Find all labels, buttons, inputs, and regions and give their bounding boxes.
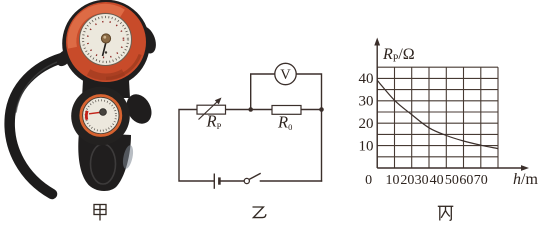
- svg-text:RP/Ω: RP/Ω: [382, 46, 415, 65]
- top gauge black casing: [62, 0, 150, 87]
- lower gauge black bezel: [71, 87, 130, 146]
- svg-text:40: 40: [359, 71, 374, 87]
- node B: [319, 107, 324, 112]
- curve RP vs h: [377, 81, 498, 149]
- svg-text:h/m: h/m: [513, 171, 538, 188]
- rheostat RP: [197, 105, 226, 114]
- grid: [377, 67, 498, 168]
- circuit (yi): [179, 74, 322, 181]
- resistor R0: [272, 106, 301, 115]
- neck between gauges: [82, 62, 130, 98]
- rheostat RP arrow: [199, 98, 222, 120]
- x axis labels: [365, 173, 488, 188]
- voltmeter branch wires: [251, 74, 275, 110]
- axes: [377, 44, 523, 168]
- y axis arrowhead: [374, 38, 380, 46]
- wire RP to node A: [226, 109, 273, 111]
- svg-text:10: 10: [359, 138, 374, 154]
- label yi (drawn strokes): [253, 207, 266, 218]
- svg-text:70: 70: [474, 173, 488, 188]
- red reserve zone: [85, 111, 89, 120]
- svg-text:30: 30: [415, 173, 429, 188]
- switch S: [244, 173, 261, 183]
- top gauge face: [106, 55, 140, 79]
- svg-text:30: 30: [359, 94, 374, 110]
- wire right side: [321, 110, 323, 182]
- svg-text:0: 0: [365, 173, 372, 188]
- voltmeter V: [275, 63, 296, 84]
- top gauge orange bezel: [66, 2, 146, 82]
- svg-text:60: 60: [459, 173, 473, 188]
- photo: scuba gauge console (jia): [10, 0, 160, 194]
- label jia (drawn strokes): [94, 205, 106, 221]
- lower gauge orange ring: [81, 96, 121, 136]
- svg-text:V: V: [280, 67, 291, 83]
- right knob: [122, 90, 157, 128]
- battery: [214, 174, 244, 189]
- svg-text:40: 40: [430, 173, 444, 188]
- svg-text:20: 20: [400, 173, 414, 188]
- lower gauge face: [83, 97, 119, 133]
- hose: [10, 58, 62, 194]
- svg-text:10: 10: [386, 173, 400, 188]
- svg-text:50: 50: [445, 173, 459, 188]
- tail body: [78, 132, 131, 191]
- label bing (drawn strokes): [438, 206, 454, 220]
- wire R0 to node B: [301, 109, 322, 111]
- y axis labels: [359, 71, 374, 154]
- node A: [248, 107, 253, 112]
- wire bottom right to switch: [260, 180, 321, 182]
- red needle: [89, 112, 103, 114]
- svg-text:20: 20: [359, 116, 374, 132]
- top gauge needle + hub: [103, 42, 107, 56]
- x axis arrowhead: [521, 165, 529, 171]
- wire left side: [179, 110, 214, 182]
